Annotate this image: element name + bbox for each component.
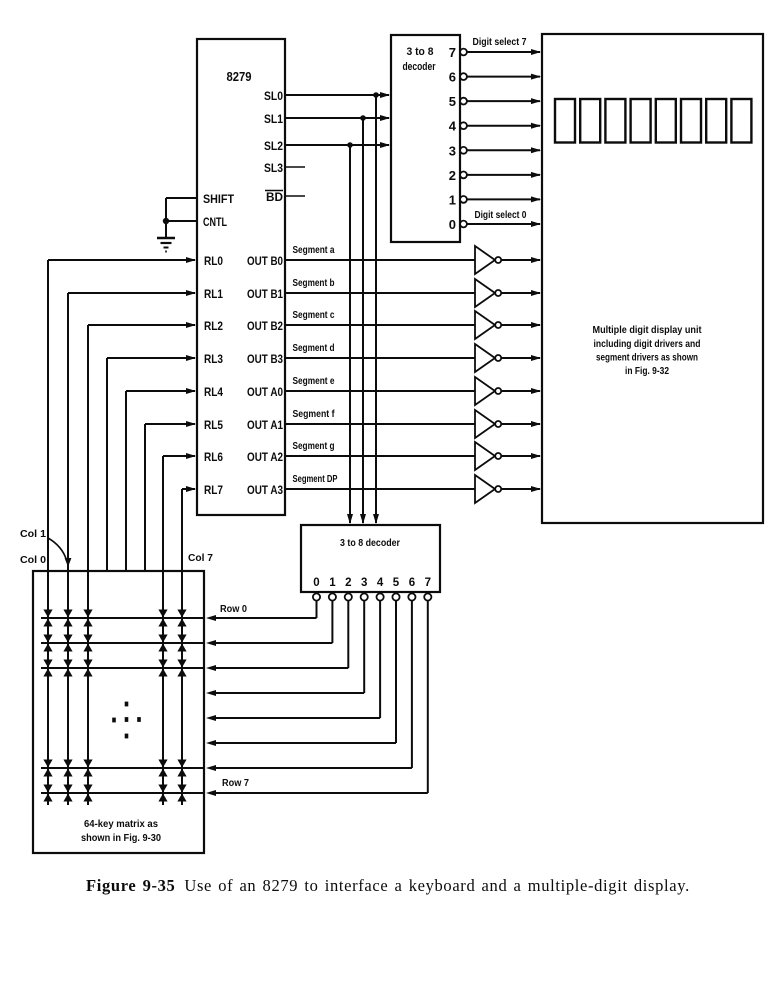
output bubble pin 1 of U3: [329, 593, 336, 600]
junction dot SL2: [347, 142, 353, 148]
svg-text:Row 7: Row 7: [222, 777, 249, 789]
output bubble pin 6 of U2: [460, 73, 467, 80]
key switch col6 row2: [158, 660, 167, 677]
key switch col7 row1: [177, 635, 186, 652]
display digit 4 outline: [656, 99, 676, 143]
wire digit select 1 to display: [467, 196, 541, 202]
pin label BD (active low, overline): [265, 190, 283, 204]
key switch col6 row1: [158, 635, 167, 652]
wire OUT A3 segment DP: [285, 488, 475, 490]
svg-text:segment drivers as shown: segment drivers as shown: [596, 352, 698, 364]
svg-text:3 to 8 decoder: 3 to 8 decoder: [340, 537, 400, 549]
svg-text:1: 1: [449, 192, 456, 207]
key switch col7 row6: [177, 760, 186, 777]
wire inverter out segment f to display: [501, 421, 541, 427]
wire inverter out segment DP to display: [501, 486, 541, 492]
svg-text:Multiple digit display unit: Multiple digit display unit: [593, 324, 702, 336]
inverter driver segment d: [475, 344, 501, 372]
svg-text:CNTL: CNTL: [203, 215, 227, 229]
svg-text:Col 1: Col 1: [20, 528, 46, 540]
svg-text:in Fig. 9-32: in Fig. 9-32: [625, 365, 669, 377]
output bubble pin 2 of U2: [460, 172, 467, 179]
svg-text:SL2: SL2: [264, 139, 283, 153]
svg-text:OUT B1: OUT B1: [247, 287, 283, 301]
inverter driver segment b: [475, 279, 501, 307]
wire RL0 to key column 0: [48, 257, 196, 805]
svg-text:RL7: RL7: [204, 483, 223, 497]
output bubble pin 7 of U2: [460, 49, 467, 56]
display digit 3 outline: [681, 99, 701, 143]
wire CNTL to ground: [166, 220, 197, 222]
svg-text:Col 0: Col 0: [20, 554, 46, 566]
inverter driver segment a: [475, 246, 501, 274]
key switch col6 row7: [158, 785, 167, 802]
svg-text:Segment a: Segment a: [293, 244, 335, 256]
output bubble pin 4 of U3: [377, 593, 384, 600]
junction dot SL0: [373, 92, 379, 98]
wire OUT B0 segment a: [285, 259, 475, 261]
svg-text:RL5: RL5: [204, 418, 223, 432]
display digit 5 outline: [631, 99, 651, 143]
key switch col1 row6: [63, 760, 72, 777]
svg-text:Segment c: Segment c: [293, 309, 335, 321]
wire row 1 from U3 to key matrix: [206, 601, 332, 646]
wire digit select 2 to display: [467, 172, 541, 178]
wire RL2 to key column 2: [88, 322, 196, 805]
svg-text:2: 2: [449, 168, 456, 183]
display unit description text: [593, 324, 702, 377]
inverter driver segment DP: [475, 475, 501, 503]
inverter driver segment c: [475, 311, 501, 339]
key switch col7 row0: [177, 610, 186, 627]
svg-text:SL1: SL1: [264, 112, 283, 126]
key switch col7 row2: [177, 660, 186, 677]
stub wire SL3: [285, 166, 305, 168]
svg-text:7: 7: [449, 45, 456, 60]
key switch col0 row0: [43, 610, 52, 627]
junction dot SHIFT/CNTL tie: [163, 218, 169, 224]
wire row 5 from U3 to key matrix: [206, 601, 396, 746]
key switch col6 row6: [158, 760, 167, 777]
output bubble pin 5 of U3: [392, 593, 399, 600]
svg-text:5: 5: [449, 94, 456, 109]
key switch col2 row2: [83, 660, 92, 677]
wire OUT B1 segment b: [285, 292, 475, 294]
svg-text:decoder: decoder: [403, 61, 437, 73]
output bubble pin 2 of U3: [345, 593, 352, 600]
display digit 1 outline: [731, 99, 751, 143]
wire row 7 from U3 to key matrix: [206, 601, 428, 796]
wire row 6 from U3 to key matrix: [206, 601, 412, 771]
output bubble pin 6 of U3: [408, 593, 415, 600]
svg-text:RL6: RL6: [204, 450, 223, 464]
display unit box: multiple digit display: [542, 34, 763, 523]
wire row 0 from U3 to key matrix: [206, 601, 317, 621]
svg-text:5: 5: [393, 577, 400, 589]
wire RL5 to key column 5: [145, 421, 196, 571]
output bubble pin 1 of U2: [460, 196, 467, 203]
svg-text:SL0: SL0: [264, 89, 283, 103]
key switch col0 row7: [43, 785, 52, 802]
wire RL1 to key column 1: [68, 290, 196, 805]
wire SL2 down to decoder U3: [347, 145, 353, 524]
svg-text:Segment d: Segment d: [293, 342, 335, 354]
key matrix caption text: [81, 818, 161, 844]
svg-text:64-key matrix as: 64-key matrix as: [84, 818, 158, 830]
wire digit select 0 to display: [467, 221, 541, 227]
ellipsis dots (matrix continuation): [112, 702, 141, 739]
display digit 2 outline: [706, 99, 726, 143]
wire RL7 to key column 7: [182, 486, 196, 805]
wire OUT A2 segment g: [285, 455, 475, 457]
svg-text:3 to 8: 3 to 8: [407, 46, 434, 58]
key switch col2 row0: [83, 610, 92, 627]
svg-text:6: 6: [449, 70, 456, 85]
wire row 2 from U3 to key matrix: [206, 601, 348, 671]
key switch col0 row6: [43, 760, 52, 777]
svg-text:RL0: RL0: [204, 254, 223, 268]
wire digit select 4 to display: [467, 123, 541, 129]
wire SL2 from U1 to decoder U2: [285, 142, 390, 148]
display digit 8 outline: [555, 99, 575, 143]
IC U3 3-to-8 decoder (row scan): [301, 525, 440, 592]
svg-text:SL3: SL3: [264, 161, 283, 175]
svg-text:Figure 9-35 Use of an 8279 to: Figure 9-35 Use of an 8279 to interface …: [86, 876, 690, 895]
svg-text:4: 4: [449, 119, 457, 134]
svg-text:OUT A2: OUT A2: [247, 450, 283, 464]
wire row 4 from U3 to key matrix: [206, 601, 380, 721]
svg-text:0: 0: [313, 577, 319, 589]
output bubble pin 3 of U3: [361, 593, 368, 600]
wire SL1 from U1 to decoder U2: [285, 115, 390, 121]
wire inverter out segment c to display: [501, 322, 541, 328]
wire SL0 down to decoder U3: [373, 95, 379, 524]
wire digit select 3 to display: [467, 147, 541, 153]
wire inverter out segment b to display: [501, 290, 541, 296]
output bubble pin 4 of U2: [460, 122, 467, 129]
wire RL4 to key column 4: [126, 388, 196, 571]
output bubble pin 0 of U3: [313, 593, 320, 600]
svg-text:2: 2: [345, 577, 351, 589]
svg-text:including digit drivers and: including digit drivers and: [594, 338, 701, 350]
svg-text:4: 4: [377, 577, 384, 589]
wire SL1 down to decoder U3: [360, 118, 366, 524]
wire inverter out segment g to display: [501, 453, 541, 459]
svg-text:Segment e: Segment e: [293, 375, 335, 387]
IC U1 8279 keyboard/display controller: [197, 39, 285, 515]
wire RL6 to key column 6: [163, 453, 196, 805]
display digit 6 outline: [605, 99, 625, 143]
svg-text:RL3: RL3: [204, 352, 223, 366]
leader arrow from Col 1 label to column 1: [48, 538, 71, 567]
svg-text:0: 0: [449, 217, 456, 232]
wire key matrix row 1 line: [41, 642, 204, 644]
IC U2 3-to-8 decoder (digit select): [391, 35, 460, 242]
key switch col1 row0: [63, 610, 72, 627]
wire OUT B2 segment c: [285, 324, 475, 326]
wire OUT B3 segment d: [285, 357, 475, 359]
wire key matrix row 7 line: [41, 792, 204, 794]
svg-text:BD: BD: [266, 190, 283, 204]
key switch col0 row2: [43, 660, 52, 677]
svg-text:OUT B0: OUT B0: [247, 254, 283, 268]
inverter driver segment e: [475, 377, 501, 405]
svg-text:7: 7: [425, 577, 431, 589]
svg-text:8279: 8279: [227, 69, 252, 84]
svg-text:1: 1: [329, 577, 336, 589]
wire key matrix row 6 line: [41, 767, 204, 769]
output bubble pin 0 of U2: [460, 221, 467, 228]
svg-text:6: 6: [409, 577, 415, 589]
key switch col1 row2: [63, 660, 72, 677]
output bubble pin 3 of U2: [460, 147, 467, 154]
key switch col2 row6: [83, 760, 92, 777]
svg-text:OUT A3: OUT A3: [247, 483, 283, 497]
wire inverter out segment d to display: [501, 355, 541, 361]
svg-text:Col 7: Col 7: [188, 552, 213, 564]
wire digit select 6 to display: [467, 74, 541, 80]
svg-text:RL1: RL1: [204, 287, 223, 301]
wire SL0 from U1 to decoder U2: [285, 92, 390, 98]
svg-text:Digit select 0: Digit select 0: [475, 209, 527, 221]
svg-text:RL2: RL2: [204, 319, 223, 333]
wire key matrix row 0 line: [41, 617, 204, 619]
svg-text:3: 3: [449, 143, 456, 158]
output bubble pin 7 of U3: [424, 593, 431, 600]
svg-text:RL4: RL4: [204, 385, 223, 399]
wire OUT A0 segment e: [285, 390, 475, 392]
svg-text:shown in Fig. 9-30: shown in Fig. 9-30: [81, 832, 161, 844]
svg-text:OUT A0: OUT A0: [247, 385, 283, 399]
ground symbol: [157, 221, 175, 252]
wire inverter out segment e to display: [501, 388, 541, 394]
wire inverter out segment a to display: [501, 257, 541, 263]
wire digit select 5 to display: [467, 98, 541, 104]
wire SHIFT to ground: [166, 198, 197, 221]
keyboard 64-key matrix box: [33, 571, 204, 853]
key switch col7 row7: [177, 785, 186, 802]
key switch col1 row7: [63, 785, 72, 802]
wire OUT A1 segment f: [285, 423, 475, 425]
svg-text:3: 3: [361, 577, 367, 589]
inverter driver segment g: [475, 442, 501, 470]
wire row 3 from U3 to key matrix: [206, 601, 364, 696]
wire key matrix row 2 line: [41, 667, 204, 669]
wire RL3 to key column 3: [107, 355, 196, 571]
stub wire BD: [285, 195, 305, 197]
inverter driver segment f: [475, 410, 501, 438]
svg-text:Digit select 7: Digit select 7: [473, 36, 527, 48]
svg-text:Row 0: Row 0: [220, 603, 247, 615]
key switch col2 row1: [83, 635, 92, 652]
key switch col1 row1: [63, 635, 72, 652]
svg-text:OUT B3: OUT B3: [247, 352, 283, 366]
svg-text:SHIFT: SHIFT: [203, 192, 234, 206]
wire digit select 7 to display: [467, 49, 541, 55]
key switch col6 row0: [158, 610, 167, 627]
display digit 7 outline: [580, 99, 600, 143]
svg-text:OUT A1: OUT A1: [247, 418, 283, 432]
junction dot SL1: [360, 115, 366, 121]
key switch col2 row7: [83, 785, 92, 802]
svg-text:Segment b: Segment b: [293, 277, 335, 289]
svg-text:Segment g: Segment g: [293, 440, 335, 452]
svg-text:Segment DP: Segment DP: [293, 473, 338, 485]
svg-text:OUT B2: OUT B2: [247, 319, 283, 333]
svg-text:Segment f: Segment f: [293, 408, 335, 420]
output bubble pin 5 of U2: [460, 98, 467, 105]
key switch col0 row1: [43, 635, 52, 652]
